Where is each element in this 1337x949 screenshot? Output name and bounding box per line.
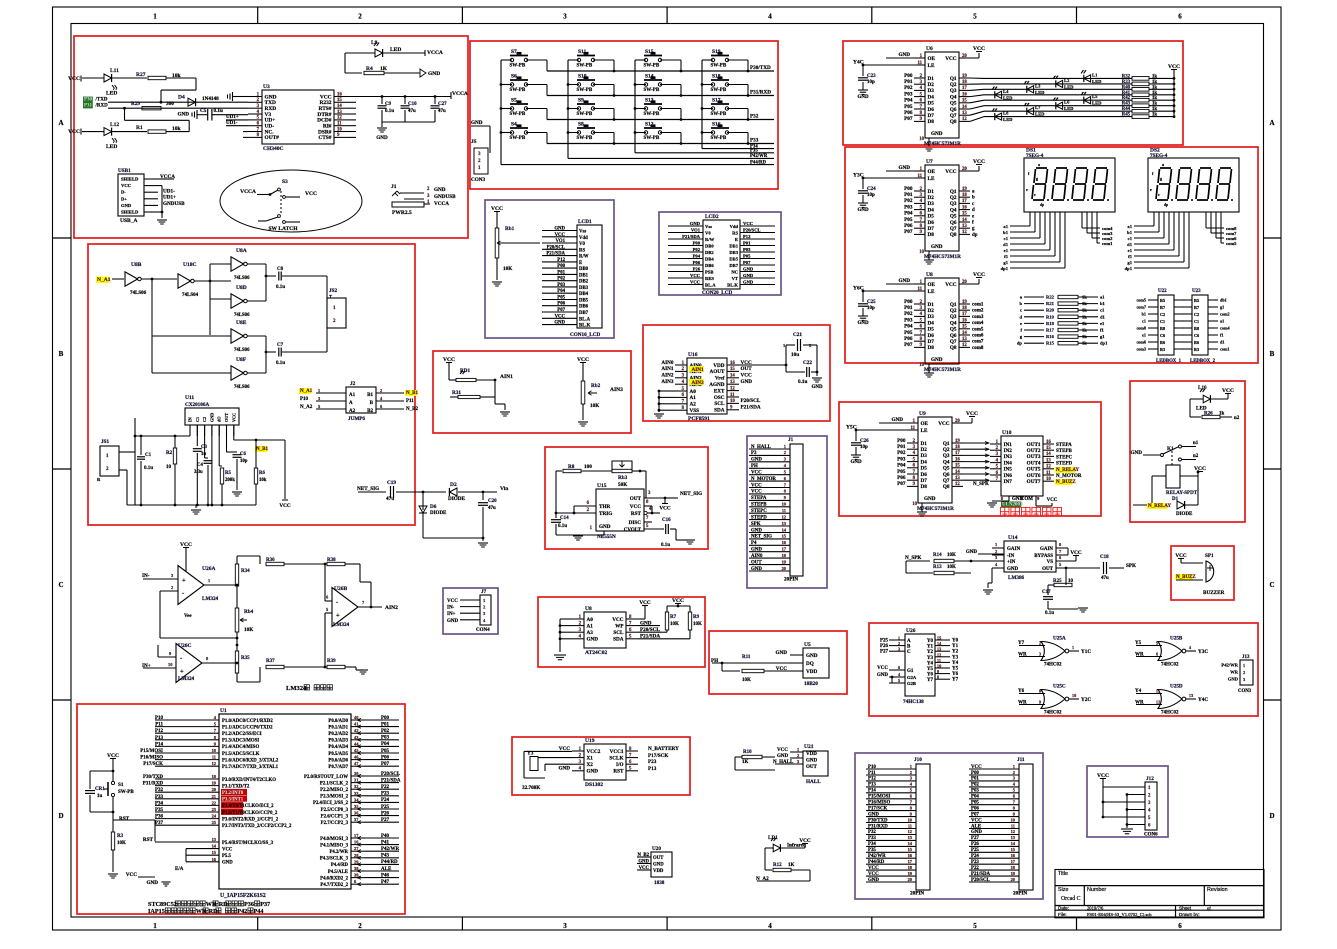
svg-text:J1: J1 [391,184,397,190]
svg-text:10K: 10K [590,403,599,409]
svg-text:C24: C24 [867,187,876,192]
svg-text:11: 11 [908,823,912,828]
svg-text:N_HALL: N_HALL [751,445,772,450]
svg-text:DISC: DISC [629,520,642,526]
svg-text:AIN3: AIN3 [610,387,623,393]
svg-text:U8B: U8B [131,262,142,268]
svg-text:VCC: VCC [690,280,700,285]
svg-text:R22: R22 [1046,295,1055,300]
svg-text:GND: GND [898,278,910,284]
svg-text:P0.0/AD0: P0.0/AD0 [328,719,348,724]
svg-text:J12: J12 [1146,776,1154,782]
svg-text:C5: C5 [200,108,207,114]
svg-text:10p: 10p [240,459,248,464]
svg-text:10: 10 [912,502,917,507]
svg-text:Y4: Y4 [927,661,934,666]
svg-text:19: 19 [962,300,967,305]
svg-text:P13: P13 [868,783,876,788]
svg-text:GND: GND [1007,567,1019,572]
svg-text:Date:: Date: [1058,905,1069,910]
svg-text:SW-PB: SW-PB [510,112,526,117]
svg-text:0.1u: 0.1u [385,109,394,114]
svg-text:D6: D6 [928,333,935,339]
svg-text:VCC: VCC [447,599,458,604]
svg-text:LED: LED [390,47,401,53]
svg-text:4: 4 [768,13,772,21]
svg-text:GND: GND [924,496,936,502]
svg-text:OUT1: OUT1 [1027,442,1041,448]
svg-text:com4: com4 [1220,326,1230,331]
svg-text:GND: GND [587,637,599,643]
svg-text:OUT: OUT [630,496,642,502]
svg-text:R40: R40 [1122,85,1131,90]
svg-text:2: 2 [358,13,362,21]
svg-text:1u: 1u [97,794,103,799]
svg-text:X1: X1 [587,755,594,761]
svg-text:P14: P14 [868,789,876,794]
svg-text:10: 10 [937,664,941,669]
svg-text:P06: P06 [904,336,913,342]
svg-text:P06: P06 [557,302,565,307]
svg-text:g: g [1160,176,1162,181]
svg-text:Q7: Q7 [943,478,950,484]
svg-text:J1: J1 [788,437,794,443]
svg-text:P35: P35 [155,808,164,813]
svg-text:OUT3: OUT3 [1027,454,1041,460]
svg-text:b1: b1 [1127,230,1133,235]
svg-text:R7: R7 [1194,305,1199,310]
svg-text:VCC: VCC [305,191,317,197]
svg-text:VCCA: VCCA [240,189,256,195]
svg-text:B1: B1 [367,393,373,398]
svg-text:Y0: Y0 [927,639,934,644]
svg-text:U10: U10 [1002,430,1012,436]
svg-text:P11: P11 [868,771,876,776]
svg-text:R17: R17 [1046,328,1055,333]
svg-text:11: 11 [1156,689,1160,694]
svg-text:PWR2.5: PWR2.5 [392,210,412,216]
svg-text:OUT5: OUT5 [1027,467,1041,473]
svg-text:g1: g1 [1003,260,1008,265]
svg-text:NET_SIG: NET_SIG [751,535,772,540]
svg-text:P26: P26 [971,842,979,847]
svg-text:13: 13 [1046,458,1051,463]
svg-text:10K: 10K [947,565,956,570]
svg-text:P3.4/T0/T1CLKO/ECI_2: P3.4/T0/T1CLKO/ECI_2 [222,804,274,809]
svg-text:L11: L11 [110,68,119,74]
svg-text:Revision: Revision [1207,887,1228,893]
svg-text:P3.6/INT2/RXD_2/CCP1_2: P3.6/INT2/RXD_2/CCP1_2 [222,817,279,822]
svg-text:Y1: Y1 [927,645,934,650]
svg-text:GND: GND [743,273,754,278]
svg-text:1838: 1838 [654,880,665,886]
svg-text:C2: C2 [1160,312,1165,317]
svg-text:17: 17 [962,86,967,91]
svg-text:D4: D4 [928,94,935,100]
svg-text:D8: D8 [921,484,928,490]
svg-text:DB4: DB4 [705,257,714,262]
svg-text:D5: D5 [928,101,935,107]
svg-text:R1: R1 [136,125,143,131]
svg-text:P03: P03 [557,283,565,288]
svg-text:STEPB: STEPB [751,503,767,508]
svg-text:A1: A1 [587,623,594,629]
svg-text:Y3C: Y3C [1198,649,1208,655]
svg-text:DB0: DB0 [579,267,589,272]
svg-text:VCC: VCC [938,421,949,427]
svg-text:R5: R5 [225,471,231,476]
svg-text:P4.4/RD: P4.4/RD [331,863,349,868]
svg-text:DIODE: DIODE [430,511,447,516]
svg-text:P05: P05 [904,330,913,336]
svg-text:P02: P02 [557,277,565,282]
svg-text:10: 10 [1046,477,1051,482]
svg-text:GND: GND [222,861,233,866]
svg-text:SW-PB: SW-PB [510,88,526,93]
svg-text:P1.1/ADC1/CCP0/TXD2: P1.1/ADC1/CCP0/TXD2 [222,725,273,730]
svg-text:N_A2: N_A2 [300,405,313,410]
svg-text:U8D: U8D [236,285,247,291]
svg-text:STEPC: STEPC [1056,455,1073,460]
svg-text:P00: P00 [897,438,906,444]
svg-text:P15/MOSI: P15/MOSI [140,749,163,754]
svg-text:R8: R8 [1194,326,1199,331]
svg-text:Orcad C: Orcad C [1061,896,1081,902]
svg-text:AIN0: AIN0 [661,360,674,366]
svg-text:GNDUSB: GNDUSB [163,201,185,207]
svg-text:e1: e1 [1004,248,1009,253]
svg-text:JS1: JS1 [101,439,109,445]
svg-text:Number: Number [1087,887,1106,893]
svg-text:U7: U7 [926,159,933,165]
svg-text:N_B2: N_B2 [406,407,418,412]
svg-text:SW-PB: SW-PB [711,64,727,69]
svg-text:Y1C: Y1C [1081,649,1091,655]
svg-text:P01: P01 [897,444,906,450]
svg-text:Q8: Q8 [950,232,957,238]
svg-text:Q6: Q6 [950,220,957,226]
svg-text:18: 18 [962,80,967,85]
svg-text:L2: L2 [1064,78,1070,83]
svg-text:IN4: IN4 [1004,460,1013,466]
svg-text:VCC: VCC [612,617,623,623]
svg-text:com4: com4 [972,321,984,326]
svg-text:1: 1 [910,764,912,769]
svg-text:P04: P04 [904,98,913,104]
svg-text:GND: GND [931,244,943,250]
svg-text:VCC: VCC [868,872,879,877]
svg-text:Q5: Q5 [950,101,957,107]
svg-text:R6: R6 [1160,340,1165,345]
svg-text:10p: 10p [867,306,875,311]
svg-text:OUT: OUT [224,413,229,422]
svg-text:10K: 10K [742,678,751,683]
svg-text:Y4: Y4 [952,661,959,666]
svg-text:UD1+: UD1+ [163,195,176,201]
svg-text:P24: P24 [971,854,979,859]
svg-text:SW-PB: SW-PB [577,136,593,141]
svg-text:GAIN: GAIN [1040,547,1053,552]
svg-text:1: 1 [797,747,799,752]
svg-text:C6: C6 [240,452,246,457]
svg-text:b1: b1 [1100,301,1106,306]
svg-text:GND: GND [743,280,754,285]
svg-text:com7: com7 [972,340,984,345]
svg-text:LM386: LM386 [1008,575,1025,581]
svg-text:M74HC573M1R: M74HC573M1R [917,506,954,512]
svg-text:P04: P04 [693,254,701,259]
svg-text:1: 1 [898,636,900,641]
svg-text:P05: P05 [557,296,565,301]
svg-text:VCC: VCC [68,76,80,82]
svg-text:100: 100 [584,464,592,470]
svg-text:D4: D4 [928,207,935,213]
svg-text:SW-PB: SW-PB [711,136,727,141]
svg-text:Rb2: Rb2 [591,383,601,389]
svg-text:P30/TXD: P30/TXD [143,775,163,780]
svg-text:OUT: OUT [653,856,664,861]
svg-text:JUMP6: JUMP6 [348,416,365,422]
svg-text:GND: GND [931,131,943,137]
svg-text:P26: P26 [693,267,701,272]
svg-text:P00: P00 [971,771,979,776]
svg-text:15: 15 [730,367,735,372]
svg-text:2: 2 [910,770,912,775]
svg-text:S9: S9 [578,98,584,104]
svg-text:74HC02: 74HC02 [1161,663,1179,668]
svg-text:P05: P05 [743,254,751,259]
svg-text:D4: D4 [178,94,185,100]
svg-text:C4: C4 [197,463,203,468]
svg-text:GND: GND [1130,450,1142,456]
svg-text:Q6: Q6 [943,472,950,478]
svg-text:C17: C17 [1042,590,1051,595]
svg-text:R32: R32 [1122,74,1131,79]
svg-text:D4: D4 [921,459,928,465]
svg-text:P01: P01 [904,79,913,85]
svg-text:LED: LED [1035,112,1045,117]
svg-text:Y6: Y6 [952,672,959,677]
svg-text:R14: R14 [933,553,942,558]
svg-text:R13: R13 [933,565,942,570]
svg-text:R45: R45 [1122,113,1131,118]
svg-text:VCC: VCC [126,872,137,878]
svg-text:P00: P00 [557,264,565,269]
svg-text:dp1: dp1 [1100,341,1108,346]
svg-text:Q3: Q3 [943,453,950,459]
svg-text:12: 12 [962,117,967,122]
svg-text:A2: A2 [349,409,356,414]
svg-text:C22: C22 [803,360,812,366]
svg-text:OE: OE [928,169,936,175]
svg-text:R18: R18 [1046,321,1055,326]
svg-text:Q3: Q3 [950,201,957,207]
svg-text:13: 13 [962,111,967,116]
svg-text:6: 6 [1178,13,1182,21]
svg-text:SPK: SPK [1126,563,1136,569]
svg-text:P10: P10 [868,765,876,770]
svg-text:GND: GND [806,653,818,659]
svg-text:18B20: 18B20 [804,681,818,687]
svg-text:0.1u: 0.1u [558,524,567,529]
svg-text:BYPASS: BYPASS [1034,554,1053,559]
svg-text:P06: P06 [971,806,979,811]
svg-text:U8F: U8F [236,357,247,363]
svg-text:13: 13 [962,224,967,229]
svg-text:11: 11 [1011,823,1015,828]
svg-text:D5: D5 [921,466,928,472]
svg-text:15: 15 [962,99,967,104]
svg-text:S6: S6 [511,74,517,80]
svg-text:R9: R9 [693,615,700,620]
svg-text:8: 8 [937,675,939,680]
svg-text:P3.2/INT0: P3.2/INT0 [222,791,244,796]
svg-text:N_B1: N_B1 [406,391,418,396]
svg-text:com1: com1 [972,303,984,308]
svg-text:RST: RST [631,511,642,517]
svg-text:14: 14 [1046,452,1051,457]
svg-text:1: 1 [208,578,210,583]
svg-text:R29: R29 [131,101,140,107]
svg-text:CON4: CON4 [476,628,490,633]
svg-text:P07: P07 [904,229,913,235]
svg-text:P42/WR: P42/WR [750,154,768,159]
svg-text:13: 13 [937,647,941,652]
svg-text:com3: com3 [972,315,984,320]
svg-text:5: 5 [973,922,977,930]
svg-text:com5: com5 [1226,241,1237,246]
svg-text:RST: RST [613,769,624,775]
svg-text:18: 18 [962,306,967,311]
svg-text:com1: com1 [1102,241,1113,246]
svg-text:n2: n2 [1234,416,1240,421]
svg-text:32.768K: 32.768K [522,785,540,791]
svg-text:CTS#: CTS# [318,135,331,141]
svg-text:J13: J13 [1242,655,1250,660]
svg-text:P02: P02 [904,198,913,204]
svg-text:R3: R3 [117,834,124,839]
svg-text:P44/RD: P44/RD [750,160,767,165]
svg-text:P33: P33 [155,795,164,800]
svg-text:P1.2/ADC2/SS/ECI: P1.2/ADC2/SS/ECI [222,732,262,737]
svg-text:Q7: Q7 [950,226,957,232]
svg-text:com8: com8 [972,346,984,351]
svg-text:g1: g1 [1127,260,1132,265]
svg-text:GND: GND [868,878,879,883]
svg-text:VS: VS [1047,560,1054,565]
svg-text:P03: P03 [743,247,751,252]
svg-text:9: 9 [937,669,939,674]
svg-text:12: 12 [1046,465,1051,470]
svg-text:GND: GND [121,203,132,208]
svg-text:Q5: Q5 [950,214,957,220]
svg-text:14: 14 [962,218,967,223]
svg-text:com5: com5 [972,327,984,332]
svg-text:1: 1 [1072,645,1074,650]
svg-text:P05: P05 [904,104,913,110]
svg-text:P42/WR: P42/WR [1221,663,1238,668]
svg-text:5: 5 [1156,641,1158,646]
svg-text:P25: P25 [880,639,889,644]
svg-text:17: 17 [955,451,960,456]
svg-text:L5: L5 [1092,94,1098,99]
svg-text:U9: U9 [919,411,926,417]
svg-text:1K: 1K [742,760,749,765]
svg-text:GNDUSB: GNDUSB [434,194,456,200]
svg-text:R8: R8 [1160,326,1165,331]
svg-text:D6: D6 [921,472,928,478]
svg-text:GND: GND [743,267,754,272]
svg-text:P04: P04 [904,211,913,217]
svg-text:d: d [972,208,975,213]
svg-text:AIN2: AIN2 [385,605,398,611]
svg-text:U8E: U8E [236,320,247,326]
svg-text:D3: D3 [928,314,935,320]
svg-text:+: + [180,668,184,675]
svg-text:a1: a1 [1100,295,1105,300]
svg-text:D1: D1 [928,189,935,195]
svg-text:1K: 1K [788,863,795,868]
svg-text:A0: A0 [587,617,594,623]
svg-text:LCD1: LCD1 [578,219,592,225]
svg-text:n2: n2 [1193,454,1199,459]
svg-text:74HC02: 74HC02 [1044,711,1062,716]
svg-text:SDA: SDA [714,408,725,414]
svg-text:P03: P03 [971,789,979,794]
svg-text:10: 10 [337,127,342,132]
svg-text:AT24C02: AT24C02 [585,650,607,656]
svg-text:DB7: DB7 [729,263,738,268]
svg-text:P35: P35 [868,848,876,853]
svg-text:LEDBOX_1: LEDBOX_1 [1156,359,1182,364]
svg-text:P0.7/AD7: P0.7/AD7 [328,765,348,770]
svg-text:19: 19 [955,439,960,444]
svg-text:LCD2: LCD2 [705,214,719,220]
svg-text:11: 11 [917,287,922,292]
svg-text:16: 16 [962,318,967,323]
svg-text:D2: D2 [928,195,935,201]
svg-text:42: 42 [354,728,358,733]
svg-text:D1: D1 [928,76,935,82]
svg-text:SW-PB: SW-PB [644,112,660,117]
svg-text:P12: P12 [868,777,876,782]
svg-text:STEPA: STEPA [1056,443,1072,448]
svg-text:R5: R5 [1194,298,1199,303]
svg-text:P01: P01 [904,305,913,311]
svg-text:Y3: Y3 [927,656,934,661]
svg-text:U6: U6 [926,46,933,52]
svg-text:GND: GND [971,830,982,835]
svg-text:LM324: LM324 [178,676,195,682]
svg-text:VCCA: VCCA [434,201,449,207]
svg-text:P32: P32 [750,113,759,119]
svg-text:UD1-: UD1- [226,121,238,126]
svg-text:P16/MISO: P16/MISO [140,756,163,761]
svg-text:e1: e1 [1142,333,1146,338]
svg-text:Vdd: Vdd [579,236,588,241]
svg-text:L8: L8 [1003,111,1009,116]
svg-text:11: 11 [937,658,941,663]
svg-text:P07: P07 [743,260,751,265]
svg-text:VCC: VCC [971,818,982,823]
svg-text:12: 12 [962,230,967,235]
svg-text:R35: R35 [241,656,250,661]
svg-text:Vin: Vin [500,486,508,492]
svg-text:LE: LE [928,289,935,295]
svg-text:P27: P27 [880,650,889,655]
svg-text:11: 11 [212,755,216,760]
svg-text:VCC: VCC [279,503,290,509]
